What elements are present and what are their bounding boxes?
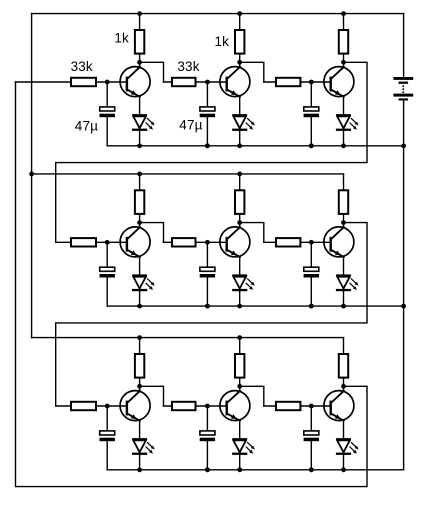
svg-text:47µ: 47µ [75,118,98,133]
svg-text:1k: 1k [215,34,230,49]
svg-text:1k: 1k [114,31,129,46]
svg-text:47µ: 47µ [179,117,202,132]
svg-text:33k: 33k [71,59,93,74]
svg-text:33k: 33k [177,59,199,74]
